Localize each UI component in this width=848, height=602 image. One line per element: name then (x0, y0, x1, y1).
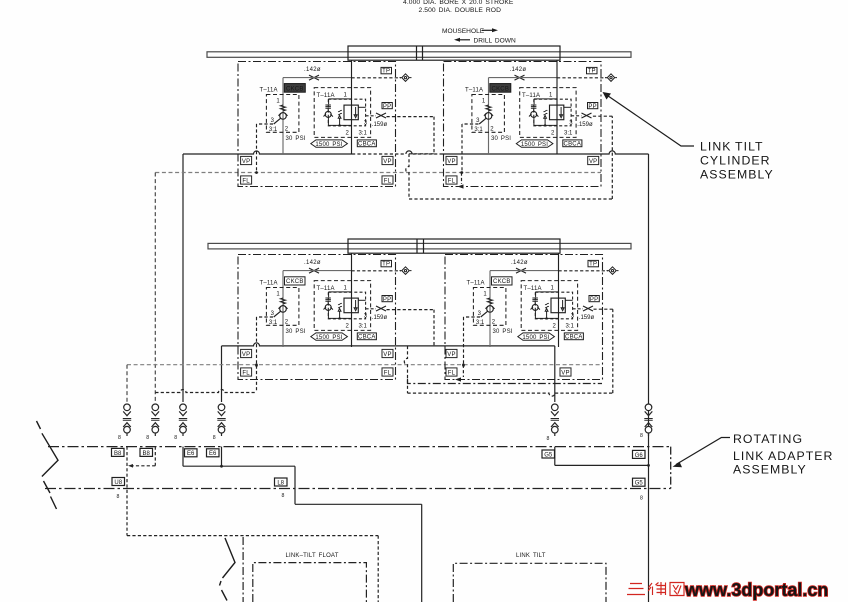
svg-text:8: 8 (547, 436, 550, 442)
svg-text:ASSEMBLY: ASSEMBLY (733, 463, 807, 477)
svg-text:8: 8 (174, 435, 177, 441)
svg-text:G6: G6 (635, 453, 644, 459)
coupling col3 (179, 404, 187, 436)
adapter box right border (670, 447, 672, 489)
FL pilot line row2 (127, 364, 603, 366)
svg-text:VP: VP (447, 159, 455, 165)
LINK-TILT FLOAT box (253, 563, 367, 602)
PP link row1: B1 orifice to drop (387, 116, 613, 199)
CJK char wang (670, 583, 684, 596)
CJK char san (627, 584, 645, 595)
B2 pilot stub below FL (461, 173, 463, 185)
svg-text:8: 8 (282, 493, 285, 499)
VP box B3 left (241, 349, 252, 358)
L8 box (275, 478, 288, 486)
svg-text:8: 8 (640, 433, 643, 439)
svg-text:FL: FL (448, 370, 456, 376)
cylinder row1 rod (207, 52, 631, 58)
valve assembly block B3 (row2 left) (238, 253, 412, 380)
row2 right extra dash-dot boundary (408, 379, 603, 384)
leader arrow to cylinder assembly (603, 92, 695, 146)
cylinder row2 barrel (348, 239, 560, 253)
PP link row2 (387, 309, 613, 396)
svg-text:U8: U8 (114, 480, 122, 486)
FL junction dots (255, 171, 258, 174)
CKCB inverse label B2 (490, 84, 511, 93)
col2 to col1 jumper (131, 447, 155, 466)
VP box B4 left (446, 349, 457, 358)
svg-text:FL: FL (242, 178, 250, 184)
svg-text:B8: B8 (143, 451, 151, 457)
VP box B4 lower right (560, 368, 571, 377)
VP row2 drop to G5 coupling col5 (554, 346, 556, 402)
coupling col1 (123, 404, 131, 436)
B8 box 1 (112, 448, 125, 456)
cylinder spec note (403, 0, 514, 14)
svg-text:VP: VP (242, 159, 250, 165)
drill down direction (454, 37, 516, 44)
FL box B1 right (382, 176, 393, 185)
FL pilot line row1 (155, 172, 601, 174)
svg-text:LINK–TILT FLOAT: LINK–TILT FLOAT (286, 553, 339, 559)
coupling col6 (644, 404, 652, 436)
svg-text:8: 8 (117, 494, 120, 500)
col3 col4 join (183, 447, 422, 602)
coupling col4 (217, 404, 225, 436)
VP line row1 (183, 151, 352, 154)
VP row1 drop to E6 coupling col3 (182, 154, 184, 402)
svg-text:B8: B8 (114, 451, 122, 457)
svg-text:VP: VP (589, 159, 597, 165)
VP line row2 (222, 343, 555, 346)
VP box B3 right (382, 349, 393, 358)
svg-text:8: 8 (640, 496, 643, 502)
svg-text:8: 8 (146, 435, 149, 441)
svg-text:LINK ADAPTER: LINK ADAPTER (733, 449, 833, 463)
E6 box 1 (185, 449, 198, 457)
FL box B1 left (241, 176, 252, 185)
CJK char wei (648, 582, 665, 595)
rotating adapter bus line 1 (48, 446, 671, 448)
VP row1 drop to G6 coupling col6 (648, 154, 650, 602)
LINK TILT box (453, 563, 606, 602)
svg-text:E6: E6 (209, 451, 217, 457)
pilot low line row2 (155, 366, 256, 393)
svg-text:FL: FL (242, 370, 250, 376)
svg-text:ASSEMBLY: ASSEMBLY (700, 168, 774, 182)
B4 pilot stub below FL (462, 365, 464, 377)
FL row2 drop col1 (126, 365, 128, 402)
svg-text:VP: VP (383, 352, 391, 358)
svg-text:FL: FL (384, 370, 392, 376)
coupling col2 (151, 404, 159, 436)
FL row1 drop col2 (154, 173, 156, 403)
U8 box (112, 478, 125, 486)
cylinder row1 piston (417, 46, 423, 60)
VP box B2 left (446, 156, 457, 165)
svg-text:VP: VP (561, 370, 569, 376)
VP box B2 right (588, 156, 599, 165)
B4 bottom border arrow (455, 377, 461, 381)
svg-text:L8: L8 (277, 480, 284, 486)
svg-text:VP: VP (242, 352, 250, 358)
valve assembly block B1 (row1 left) (238, 60, 412, 187)
cylinder row2 rod (208, 243, 631, 249)
leader arrow to rotating adapter (673, 438, 731, 468)
valve assembly block B4 (row2 right) (445, 253, 619, 380)
B2 bottom border arrow (458, 184, 464, 188)
VP box B1 left (241, 156, 252, 165)
svg-text:8: 8 (118, 435, 121, 441)
svg-text:VP: VP (447, 352, 455, 358)
svg-text:LINK TILT: LINK TILT (516, 553, 546, 559)
PP link row1 horizontal jog (409, 153, 434, 155)
svg-text:CYLINDER: CYLINDER (700, 154, 771, 168)
G5 box upper (542, 450, 555, 458)
svg-text:8: 8 (213, 435, 216, 441)
svg-text:CKCB: CKCB (492, 86, 509, 92)
B8 box 2 (140, 448, 153, 456)
col5 col6 join (555, 447, 649, 466)
svg-text:G5: G5 (635, 481, 644, 487)
svg-text:2.500 DIA. DOUBLE ROD: 2.500 DIA. DOUBLE ROD (419, 7, 502, 14)
note LINK TILT CYLINDER ASSEMBLY (700, 139, 774, 181)
coupling col5 (551, 404, 559, 436)
valve assembly block B2 (row1 right) (444, 60, 618, 187)
svg-text:E6: E6 (187, 451, 195, 457)
VP row2 drop to E6 coupling col4 (221, 346, 223, 402)
note ROTATING LINK ADAPTER ASSEMBLY (733, 432, 833, 477)
rotating adapter bus line 2 (45, 488, 671, 490)
middle break zigzag (220, 538, 236, 601)
E6 box 2 (207, 449, 220, 457)
left break zigzag (37, 421, 59, 509)
jumper arrowhead (128, 464, 133, 468)
cylinder row1 barrel (348, 46, 560, 60)
svg-text:www.3dportal.cn: www.3dportal.cn (684, 580, 828, 600)
svg-text:FL: FL (384, 178, 392, 184)
svg-text:G5: G5 (544, 452, 553, 458)
FL box B3 right (382, 368, 393, 377)
svg-text:VP: VP (383, 159, 391, 165)
svg-text:FL: FL (448, 178, 456, 184)
coupling size tags (117, 433, 644, 502)
svg-text:CKCB: CKCB (286, 86, 303, 92)
G6 box (633, 450, 646, 458)
FL box B3 left (241, 368, 252, 377)
FL box B4 left (446, 368, 457, 377)
svg-text:DRILL DOWN: DRILL DOWN (474, 37, 516, 44)
svg-text:4.000 DIA. BORE X 20.0 ST: 4.000 DIA. BORE X 20.0 STROKE (403, 0, 514, 6)
svg-text:MOUSEHOLE: MOUSEHOLE (442, 28, 485, 35)
CKCB inverse label B1 (284, 84, 305, 93)
G5 box lower (633, 478, 646, 486)
svg-text:LINK TILT: LINK TILT (700, 139, 764, 153)
FL box B2 left (446, 176, 457, 185)
mousehole direction (442, 28, 498, 35)
svg-text:ROTATING: ROTATING (733, 432, 803, 446)
col1 down line (126, 447, 128, 536)
bottom middle dash-dot line (242, 537, 244, 602)
bottom dashed run (127, 536, 378, 602)
VP box B1 right (382, 156, 393, 165)
cylinder row2 piston (417, 239, 424, 253)
